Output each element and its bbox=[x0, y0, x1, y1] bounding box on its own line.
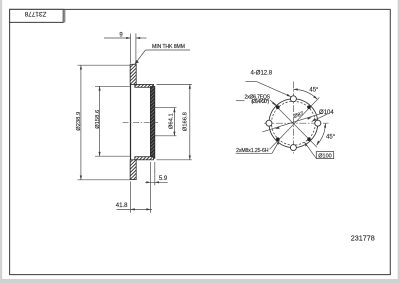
vertical centerline bbox=[292, 82, 294, 154]
svg-text:Ø104: Ø104 bbox=[319, 110, 334, 116]
disc top section (hatched) bbox=[130, 64, 136, 84]
bottom flange (hatched) bbox=[135, 157, 154, 160]
svg-text:41.8: 41.8 bbox=[116, 203, 128, 209]
bolt hole E bbox=[315, 120, 321, 126]
dimension 9 (disc thickness) bbox=[104, 34, 147, 64]
bolt hole S bbox=[290, 145, 296, 151]
outer circle bbox=[269, 99, 318, 148]
NW-SE diagonal centerline bbox=[272, 102, 317, 147]
bolt hole W bbox=[266, 120, 272, 126]
bolt hole N bbox=[290, 96, 296, 102]
hat wall (dark) bbox=[150, 87, 154, 159]
dimension 5.9 (wall) bbox=[145, 162, 168, 213]
dia 100 boxed label + leader bbox=[316, 152, 333, 159]
svg-text:4-Ø12.8: 4-Ø12.8 bbox=[250, 71, 272, 77]
dia 104 label + leader bbox=[312, 114, 328, 122]
top flange (hatched) bbox=[135, 84, 154, 87]
svg-text:Z31778: Z31778 bbox=[24, 10, 46, 17]
top 45 deg arc bbox=[293, 89, 317, 99]
dimension 41.8 (height) bbox=[117, 182, 153, 213]
svg-text:Ø166.8: Ø166.8 bbox=[183, 112, 189, 131]
inner dashed circle bbox=[272, 101, 316, 145]
svg-text:45°: 45° bbox=[309, 87, 319, 93]
svg-text:MIN THK 8MM: MIN THK 8MM bbox=[152, 44, 185, 50]
dia 87 dimension line bbox=[262, 113, 322, 132]
svg-text:Ø238.9: Ø238.9 bbox=[76, 112, 82, 131]
pilot hole upper line bbox=[155, 107, 177, 109]
dimension dia 238.9 bbox=[78, 65, 131, 180]
small hole SE (filled) bbox=[307, 137, 311, 141]
small hole SW (filled) bbox=[276, 137, 280, 141]
lower 45 deg arc bbox=[317, 123, 326, 145]
svg-text:5.9: 5.9 bbox=[159, 176, 168, 182]
svg-text:(Ø14X90°): (Ø14X90°) bbox=[251, 99, 269, 105]
NE-SW diagonal centerline bbox=[270, 97, 320, 149]
title box divider bbox=[64, 9, 66, 22]
horizontal centerline bbox=[264, 122, 329, 124]
svg-text:Ø100: Ø100 bbox=[318, 153, 331, 159]
dimension dia 64.1 bbox=[173, 108, 175, 136]
note MIN THK 8MM bbox=[135, 50, 146, 64]
centerline (axis) bbox=[123, 121, 159, 123]
dimension dia 158.6 bbox=[95, 86, 130, 156]
svg-text:231778: 231778 bbox=[351, 234, 375, 243]
svg-text:Ø158.6: Ø158.6 bbox=[95, 110, 101, 129]
disc bottom section (hatched) bbox=[130, 160, 136, 180]
pilot hole lower line bbox=[155, 135, 177, 137]
small hole NW (filled) bbox=[276, 105, 280, 109]
small hole NE (filled) bbox=[307, 105, 311, 109]
svg-text:Ø64.1: Ø64.1 bbox=[169, 113, 175, 129]
dimension dia 166.8 bbox=[157, 84, 192, 159]
title box bbox=[10, 9, 64, 22]
svg-text:45°: 45° bbox=[326, 134, 336, 140]
disc left face bbox=[130, 64, 132, 179]
